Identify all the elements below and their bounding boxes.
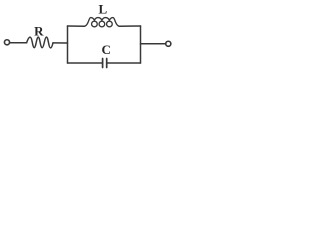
svg-text:L: L	[98, 2, 107, 17]
inductor L coil arches	[85, 18, 120, 27]
svg-text:R: R	[34, 23, 44, 38]
wire left-terminal to resistor	[10, 42, 26, 44]
wire box to right terminal	[141, 43, 166, 45]
wire top rail left	[68, 25, 85, 27]
wire resistor to box	[53, 42, 68, 44]
inductor loop 1	[92, 21, 98, 27]
wire top rail right	[119, 25, 140, 27]
node A (box left junction)	[67, 26, 69, 63]
svg-text:C: C	[102, 42, 111, 57]
resistor R	[27, 37, 53, 48]
wire bottom rail left	[68, 62, 103, 64]
wire bottom rail right	[107, 62, 141, 64]
inductor loop 2	[99, 21, 105, 27]
terminal right	[166, 41, 171, 46]
capacitor C left plate	[102, 59, 104, 68]
terminal left	[4, 40, 9, 45]
capacitor C right plate	[106, 59, 108, 68]
inductor loop 3	[107, 21, 113, 27]
wire box right vertical	[140, 26, 142, 63]
